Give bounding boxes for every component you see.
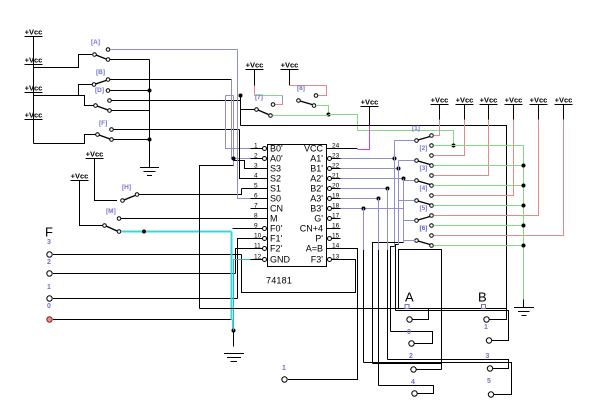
svg-text:[5]: [5] bbox=[420, 205, 428, 212]
svg-text:A=B: A=B bbox=[306, 244, 323, 254]
svg-text:18: 18 bbox=[332, 203, 340, 210]
svg-text:5: 5 bbox=[487, 378, 491, 385]
svg-text:[6]: [6] bbox=[420, 225, 428, 232]
svg-text:4: 4 bbox=[254, 173, 258, 180]
svg-text:F3': F3' bbox=[311, 255, 324, 265]
svg-text:1: 1 bbox=[484, 324, 488, 331]
svg-text:3: 3 bbox=[47, 239, 51, 246]
svg-text:S0: S0 bbox=[270, 194, 281, 204]
svg-text:15: 15 bbox=[332, 233, 340, 240]
svg-text:16: 16 bbox=[332, 223, 340, 230]
svg-text:B: B bbox=[478, 290, 487, 305]
svg-text:17: 17 bbox=[332, 213, 340, 220]
svg-text:[8]: [8] bbox=[297, 85, 305, 92]
svg-text:[2]: [2] bbox=[420, 145, 428, 152]
svg-text:[4]: [4] bbox=[420, 185, 428, 192]
svg-text:21: 21 bbox=[332, 173, 340, 180]
svg-text:S2: S2 bbox=[270, 174, 281, 184]
svg-text:[B]: [B] bbox=[96, 69, 105, 76]
svg-text:4: 4 bbox=[411, 379, 415, 386]
svg-text:3: 3 bbox=[254, 163, 258, 170]
svg-text:7: 7 bbox=[254, 203, 258, 210]
svg-text:S3: S3 bbox=[270, 164, 281, 174]
svg-text:+Vcc: +Vcc bbox=[530, 95, 548, 104]
svg-text:B2': B2' bbox=[310, 184, 323, 194]
svg-text:19: 19 bbox=[332, 193, 340, 200]
svg-text:CN: CN bbox=[270, 204, 283, 214]
svg-text:0: 0 bbox=[407, 329, 411, 336]
svg-text:20: 20 bbox=[332, 183, 340, 190]
svg-text:S1: S1 bbox=[270, 184, 281, 194]
svg-text:[D]: [D] bbox=[95, 87, 104, 94]
svg-text:+Vcc: +Vcc bbox=[505, 95, 523, 104]
svg-text:+Vcc: +Vcc bbox=[431, 95, 449, 104]
svg-text:[7]: [7] bbox=[255, 94, 263, 101]
svg-text:+Vcc: +Vcc bbox=[361, 97, 379, 106]
svg-text:VCC: VCC bbox=[304, 144, 324, 154]
svg-text:A2': A2' bbox=[310, 174, 323, 184]
svg-text:M: M bbox=[270, 214, 278, 224]
svg-text:B3': B3' bbox=[310, 204, 323, 214]
svg-text:14: 14 bbox=[332, 243, 340, 250]
svg-text:A3': A3' bbox=[310, 194, 323, 204]
svg-text:1: 1 bbox=[282, 365, 286, 372]
svg-text:A1': A1' bbox=[310, 154, 323, 164]
svg-text:GND: GND bbox=[270, 255, 291, 265]
svg-text:6: 6 bbox=[254, 193, 258, 200]
svg-text:+Vcc: +Vcc bbox=[555, 95, 573, 104]
svg-text:1: 1 bbox=[47, 284, 51, 291]
svg-text:2: 2 bbox=[409, 353, 413, 360]
svg-text:3: 3 bbox=[486, 353, 490, 360]
svg-text:+Vcc: +Vcc bbox=[71, 171, 89, 180]
svg-text:13: 13 bbox=[332, 254, 340, 261]
svg-text:[1]: [1] bbox=[412, 125, 420, 132]
svg-text:[F]: [F] bbox=[99, 120, 107, 127]
svg-text:[M]: [M] bbox=[106, 208, 116, 215]
svg-text:2: 2 bbox=[254, 153, 258, 160]
svg-text:11: 11 bbox=[254, 243, 261, 250]
svg-text:[A]: [A] bbox=[91, 39, 100, 46]
svg-text:0: 0 bbox=[47, 303, 51, 310]
svg-text:+Vcc: +Vcc bbox=[456, 95, 474, 104]
svg-text:+Vcc: +Vcc bbox=[281, 60, 299, 69]
svg-text:A0': A0' bbox=[270, 154, 283, 164]
svg-text:B0': B0' bbox=[270, 144, 283, 154]
svg-text:74181: 74181 bbox=[266, 276, 292, 286]
svg-text:2: 2 bbox=[47, 259, 51, 266]
svg-text:CN+4: CN+4 bbox=[300, 224, 323, 234]
svg-text:10: 10 bbox=[254, 233, 262, 240]
svg-text:F1': F1' bbox=[270, 234, 283, 244]
svg-text:A: A bbox=[405, 290, 414, 305]
svg-text:+Vcc: +Vcc bbox=[86, 149, 104, 158]
svg-text:1: 1 bbox=[254, 143, 258, 150]
svg-text:[3]: [3] bbox=[420, 165, 428, 172]
svg-text:12: 12 bbox=[254, 254, 262, 261]
svg-text:+Vcc: +Vcc bbox=[246, 60, 264, 69]
svg-text:F0': F0' bbox=[270, 224, 283, 234]
svg-text:23: 23 bbox=[332, 153, 340, 160]
svg-text:F: F bbox=[45, 225, 53, 240]
svg-text:+Vcc: +Vcc bbox=[480, 95, 498, 104]
svg-text:8: 8 bbox=[254, 213, 258, 220]
svg-text:F2': F2' bbox=[270, 244, 283, 254]
svg-text:5: 5 bbox=[254, 183, 258, 190]
svg-text:9: 9 bbox=[254, 223, 258, 230]
svg-text:22: 22 bbox=[332, 163, 340, 170]
svg-text:[H]: [H] bbox=[122, 184, 131, 191]
svg-text:B1': B1' bbox=[310, 164, 323, 174]
svg-text:+Vcc: +Vcc bbox=[25, 27, 43, 36]
svg-text:G': G' bbox=[314, 214, 323, 224]
svg-text:P': P' bbox=[315, 234, 323, 244]
